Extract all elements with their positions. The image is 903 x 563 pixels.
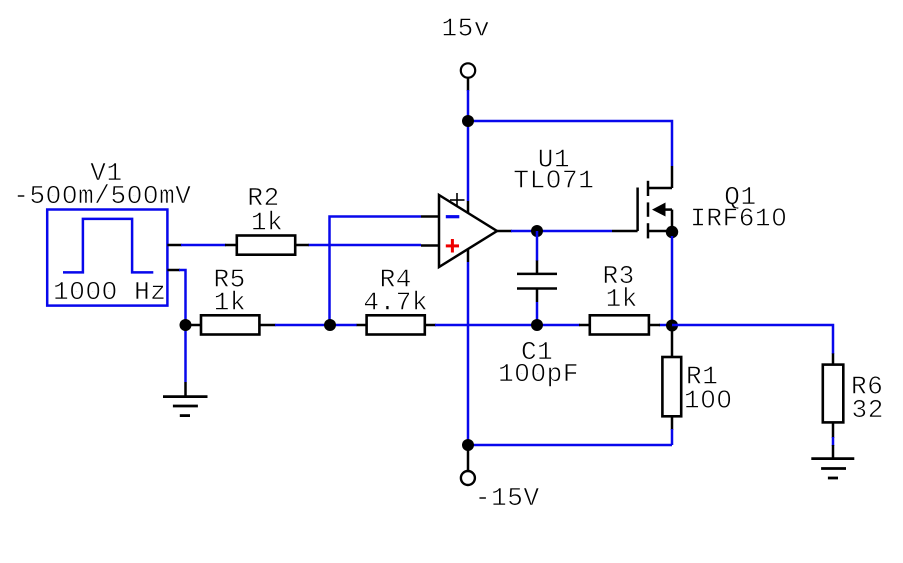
wire R2 to op-amp + input [308,244,421,247]
svg-text:15v: 15v [441,13,490,43]
wire R5 to node [275,324,330,327]
junction V1/R5/ground node [180,319,192,331]
wire negative rail bus [468,444,672,447]
wire R1 bottom to negative rail [671,429,674,445]
zero-glyph styling patches [51,176,781,401]
svg-text:IRF610: IRF610 [690,204,787,234]
svg-text:1k: 1k [251,208,283,238]
ground (V1) [163,382,208,416]
junction Q1 source [666,226,678,238]
op-amp U1 [421,193,512,267]
transistor Q1 [612,166,672,238]
wire Q1 source to output node [671,236,674,325]
wire node to R4 [330,324,357,327]
wire feedback node to op-amp - input [330,217,422,326]
svg-text:-500m/500mV: -500m/500mV [13,181,191,211]
resistor R6 [823,353,844,438]
junction top bus [462,115,474,127]
junction output / C1 [531,225,543,237]
wire op-amp output to Q1 gate [511,230,612,233]
svg-text:32: 32 [852,395,884,425]
wire V1 out to R2 [181,244,226,247]
capacitor C1 [517,231,557,325]
voltage source V1 [47,210,182,306]
svg-text:1k: 1k [606,284,638,314]
resistor R5 [189,315,276,334]
wire output node to R6 [672,325,833,354]
resistor R4 [357,315,436,334]
junction C1 bottom [531,319,543,331]
wire V1 minus down to ground node [179,270,186,382]
junction negative rail [462,439,474,451]
wire R6 to ground [832,437,835,446]
power terminal 15v [461,63,475,91]
wire top bus to Q1 drain [468,121,672,166]
resistor R3 [579,315,660,334]
wire op-amp V- down to negative rail [467,262,470,445]
resistor R1 [662,325,681,430]
resistor R2 [225,236,309,255]
junction R5/R4 node [324,319,336,331]
power terminal -15V [461,445,475,485]
wire R3 to output node [659,324,672,327]
wire R4 to R3 (through C1 node) [435,324,580,327]
svg-text:1k: 1k [214,288,246,318]
junction output node [666,320,678,332]
svg-text:-15V: -15V [475,483,540,513]
svg-text:4.7k: 4.7k [363,288,428,318]
ground (R6) [811,445,854,478]
wire 15v terminal down to op-amp V+ [467,90,470,201]
